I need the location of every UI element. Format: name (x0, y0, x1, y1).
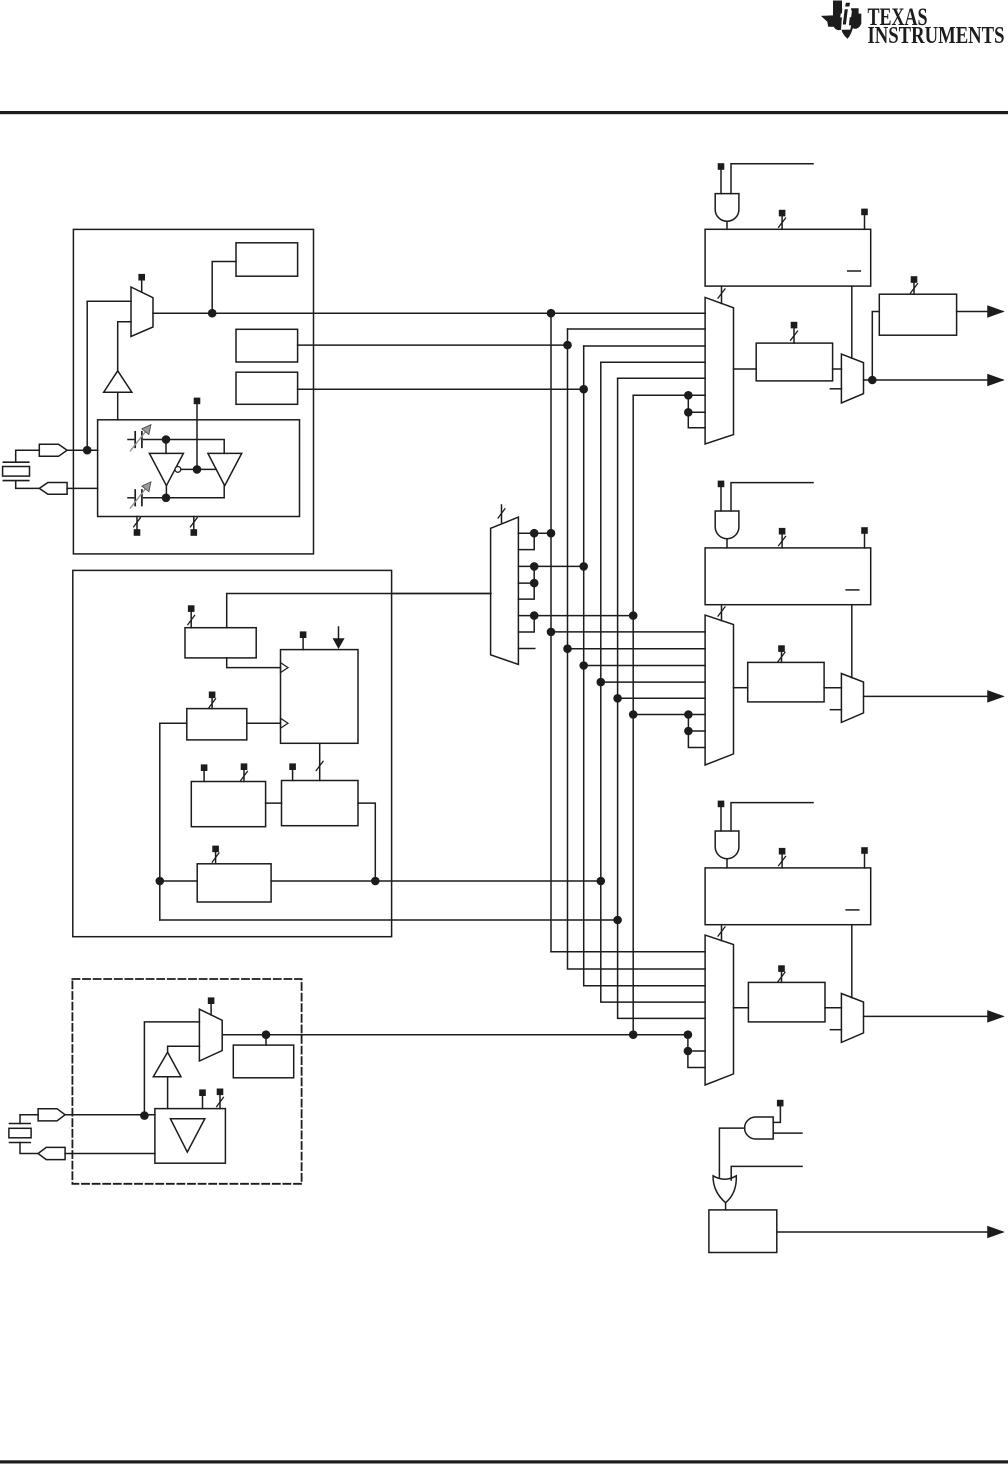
wire eeprom stub (215, 852, 217, 864)
wire decoder to latch (266, 802, 282, 804)
wire Y2 bottom lead (20, 1143, 38, 1154)
control cap-sel1 stub (136, 517, 138, 530)
wire shiftreg data out (319, 743, 321, 780)
wire bus B vertical (568, 329, 706, 969)
mux U10 PLL3 source select (705, 935, 733, 1085)
wire divider1 to outmux1 (833, 368, 842, 370)
node busE src junction (613, 916, 622, 925)
node matrix3 junction (530, 562, 539, 571)
wire vcxo mux input2 (168, 1046, 200, 1052)
box reference-divider (236, 243, 298, 276)
wire bus D vertical (601, 362, 705, 1002)
wire outmux3 const stub (830, 1029, 841, 1031)
wire Y1 bottom lead (16, 481, 40, 489)
node osc-a junction (162, 435, 171, 444)
control osc-ctrl square (194, 398, 201, 405)
node busA ch2 junction (547, 628, 556, 637)
amplifier A1 buffer (104, 371, 132, 392)
wire mux input1 (87, 301, 131, 450)
box P2 divider (879, 294, 956, 335)
wire PLL2-N stub (781, 535, 783, 548)
box bit counter (187, 709, 247, 740)
wire word-clock to logic (227, 594, 491, 628)
node busA top junction (547, 309, 556, 318)
box P4 divider (748, 982, 825, 1022)
mux U5 routing matrix (491, 517, 519, 664)
wire Y4out net (864, 1015, 1003, 1017)
wire vcxo1 stub (202, 1096, 204, 1109)
wire inv1 output (165, 486, 167, 498)
wire bus E vertical (618, 378, 706, 1018)
wire Y1out net (864, 379, 1003, 381)
wire routing select stub (501, 505, 503, 523)
wire matrix stub1 to busA (534, 532, 551, 534)
wire vcxo-in net (65, 1114, 155, 1116)
wire mux select stub (141, 281, 143, 293)
pin PD output arrow (988, 1227, 1003, 1237)
control cmd1 square (201, 764, 208, 771)
control cap-sel1 square (134, 529, 141, 536)
mux U8 PLL2 source select (705, 615, 733, 765)
capacitor CL1 trim (128, 425, 166, 451)
box address register (185, 628, 256, 658)
wire S0 input net (731, 1166, 802, 1180)
block PLL2 (705, 548, 871, 605)
node busD ch2 junction (597, 678, 606, 687)
wire bitcnt to shiftreg (247, 722, 281, 724)
node osc-b junction (162, 494, 171, 503)
box vcxo oscillator cell (155, 1109, 226, 1164)
mux U11 output select 3 (841, 994, 863, 1043)
node vcxo-in junction (140, 1111, 149, 1120)
wire inv1 mid tap (181, 468, 217, 470)
wire P4 stub (781, 972, 783, 983)
wire matrix stub4 (518, 582, 534, 584)
inverter G3 vcxo (170, 1119, 204, 1152)
node osc-mid junction (193, 465, 202, 474)
wire matrix stub5 (518, 566, 534, 599)
box powerdown control (709, 1210, 777, 1253)
control cap-sel2 square (191, 529, 198, 536)
wire Y1 top lead (16, 450, 40, 462)
wire S2 to AND (773, 1106, 780, 1122)
wire busE ch2 tap (618, 697, 706, 699)
wire busB ch2 tap (568, 648, 706, 650)
wire PLL3-M stub (864, 854, 866, 868)
node busF ch2 junction (629, 710, 638, 719)
box data latch (282, 781, 359, 826)
wire M2 output (298, 388, 584, 390)
wire inv1 input (165, 440, 167, 454)
block U1 clock-input oscillator section border (73, 229, 313, 554)
control S0 square (138, 274, 145, 281)
wire mux3 in6 chain (688, 1035, 705, 1068)
wire PLL2-M stub (864, 534, 866, 548)
node input-select junction (208, 309, 217, 318)
control eeprom square (212, 846, 219, 853)
box vcxo cal register (233, 1045, 293, 1078)
wire XOUT net (67, 487, 98, 489)
wire mux1 in6 tap (688, 394, 705, 396)
wire vcxo2 stub (219, 1095, 221, 1109)
gate PLL2 enable AND (715, 511, 739, 539)
block PLL1 (705, 229, 871, 286)
wire divider4 to outmux3 (825, 1007, 841, 1009)
node busC src junction (579, 385, 588, 394)
mux U6 PLL1 source select (705, 297, 733, 444)
box divider M1 (236, 329, 298, 362)
gate S-config OR (713, 1176, 736, 1203)
wire PLL1 bypass (851, 286, 853, 358)
node matrix1 junction (530, 529, 539, 538)
node busC ch2 junction (579, 661, 588, 670)
wire PLL1-en stub (720, 170, 722, 194)
wire vcxo mux input1 (144, 1022, 199, 1116)
wire osc-ctrl stub (196, 404, 198, 469)
wire to divider2 (872, 312, 879, 381)
wire divider3 to outmux2 (824, 687, 841, 689)
control latch square (289, 763, 296, 770)
node sdata-left junction (156, 877, 165, 886)
wire PLL2-en stub (720, 487, 722, 511)
wire mux3 in7 tap (688, 1050, 705, 1052)
wire busB top corner (568, 328, 706, 330)
wire PLL3-N stub (781, 855, 783, 868)
mux U9 output select 2 (841, 674, 863, 723)
node busF tap junction (629, 611, 638, 620)
node mux3-in7 junction (684, 1047, 693, 1056)
wire PLL3 enable net (731, 803, 813, 831)
node busE ch2 junction (613, 694, 622, 703)
inverter G1 (149, 453, 183, 485)
inverter G2 (208, 453, 242, 485)
wire latch stub (292, 770, 294, 781)
wire OR to powerdown box (725, 1203, 727, 1210)
wire AND1 to PLL1 (726, 221, 728, 229)
wire matrix stub8 (518, 648, 534, 650)
footer rule (0, 1460, 1008, 1463)
wire PLL2 enable net (731, 483, 813, 511)
node mux1-in7 junction (684, 408, 693, 417)
wire matrix stub1 (518, 532, 534, 534)
pin VCXO-OUT buffer (38, 1147, 65, 1159)
wire bus A vertical (550, 313, 552, 952)
wire AND to OR (719, 1128, 744, 1177)
gate PLL1 enable AND (715, 194, 739, 222)
wire busD ch2 tap (601, 681, 705, 683)
wire mux1 to divider1 (734, 368, 757, 370)
wire outmux1 const stub (830, 388, 841, 390)
wire P2 stub (913, 283, 915, 294)
control bitcnt square (209, 692, 216, 699)
node xtal-in junction (83, 446, 92, 455)
wire data-in arrow (333, 627, 345, 649)
wire PLL1-N stub (781, 216, 783, 229)
control PLL1-en square (718, 163, 725, 170)
wire matrix stub2 (518, 533, 534, 549)
control S2 square (777, 1100, 784, 1107)
wire vcxo cal stub (265, 1035, 267, 1045)
pin XIN buffer (39, 444, 67, 456)
label PLL1 minus (848, 270, 861, 272)
wire shiftreg ctrl stub (302, 638, 304, 650)
wire busE top corner (618, 377, 706, 379)
node sdata-latch junction (371, 877, 380, 886)
control PLL2-N square (779, 528, 786, 535)
node matrix4 junction (530, 579, 539, 588)
svg-text:INSTRUMENTS: INSTRUMENTS (868, 22, 1005, 49)
wire PLL3 to mux3 (721, 925, 723, 941)
wire PD output net (777, 1231, 1003, 1233)
wire busC ch2 tap (584, 665, 705, 667)
wire amp2 input (167, 1077, 169, 1109)
pin Y2 output arrow (988, 306, 1003, 316)
wire mux1 in6 chain (688, 395, 705, 428)
control PLL3-N square (779, 848, 786, 855)
wire sdata left segment (160, 880, 197, 882)
wire sdata right segment (271, 880, 601, 882)
wire AND3 to PLL3 (726, 859, 728, 868)
wire vcxo-out-pin net (65, 1153, 155, 1155)
wire clk-out net (153, 312, 705, 314)
wire ref-divider input (212, 262, 236, 314)
wire busA ch2 tap (551, 631, 705, 633)
node mux2-in7 junction (684, 727, 693, 736)
control P1 square (791, 322, 798, 329)
wire bus F vertical (632, 395, 634, 1034)
wire busF top corner (633, 394, 688, 396)
wire PLL1-M stub (864, 215, 866, 229)
wire Y3out net (864, 695, 1003, 697)
flip-flop U4 shift register (281, 650, 359, 744)
node vcxo-out junction (262, 1030, 271, 1039)
wire mux3 to divider4 (734, 1007, 749, 1009)
pin Y3 output arrow (988, 691, 1003, 701)
control shiftreg square (300, 631, 307, 638)
control PLL3-M square (861, 847, 868, 854)
wire mux2 in7 tap (688, 730, 705, 732)
control cmd2 square (241, 763, 248, 770)
node busB src junction (563, 341, 572, 350)
wire cmd2 stub (243, 770, 245, 782)
wire mux2 to divider3 (734, 687, 748, 689)
box crystal oscillator cell (98, 420, 300, 517)
pin VCXO-IN buffer (38, 1109, 65, 1121)
wire Y2 top lead (20, 1115, 38, 1124)
node Y1out junction (868, 376, 877, 385)
wire matrix stub3 (518, 565, 534, 567)
node busF bottom junction (629, 1030, 638, 1039)
wire matrix stub6 to busF (534, 615, 633, 617)
mux U2 input select (131, 287, 153, 337)
wire bitcnt feedback (160, 723, 187, 920)
mux U12 vcxo select (199, 1009, 222, 1061)
control addr square (188, 605, 195, 612)
wire matrix stub3 to busC (534, 565, 584, 567)
wire vcxo-sel stub (210, 1004, 212, 1015)
wire S1 input net (773, 1132, 802, 1134)
capacitor CL2 trim (128, 482, 166, 508)
node busB ch2 junction (563, 644, 572, 653)
wire amp input (117, 392, 119, 420)
wire busF ch2 tap (633, 714, 688, 716)
wire PLL1 enable net (731, 164, 813, 194)
control PLL2-M square (861, 527, 868, 534)
node mux1-in6 junction (684, 391, 693, 400)
gate S-config AND (745, 1117, 774, 1139)
node mux3-in6 junction (684, 1030, 693, 1039)
label PLL3 minus (846, 909, 859, 911)
wire vcxo output net (222, 1034, 688, 1036)
wire bus C vertical (584, 346, 705, 986)
wire sclock net (160, 919, 618, 921)
label PLL2 minus (846, 589, 859, 591)
wire osc bottom feedback (166, 486, 224, 498)
control PLL2-en square (718, 481, 725, 488)
wire XIN net (67, 449, 98, 451)
mux U7 output select 1 (841, 354, 863, 403)
wire matrix stub7 (518, 616, 534, 632)
control cap-sel2 stub (193, 517, 195, 530)
control P3 square (778, 645, 785, 652)
wire mux2 in6 chain (688, 715, 705, 748)
wire matrix stub6 (518, 615, 534, 617)
wire latch output (358, 803, 375, 881)
wire PLL3 bypass (851, 925, 853, 998)
control vcxo2 square (217, 1089, 224, 1096)
gate PLL3 enable AND (715, 831, 739, 859)
wire routing input (392, 593, 491, 595)
wire addr to shiftreg clk (227, 658, 281, 668)
logo Texas Instruments bug (821, 1, 861, 39)
box divider M2 (236, 372, 298, 404)
control PLL1-M square (861, 209, 868, 216)
wire osc top feedback (166, 440, 224, 454)
node busA tap1 junction (547, 529, 556, 538)
wire busA ch3 tap (551, 951, 705, 953)
control P4 square (778, 965, 785, 972)
wire mux input2 (118, 322, 131, 371)
box P1 divider (756, 343, 832, 381)
crystal Y2 (9, 1124, 31, 1143)
node mux2-in6 junction (684, 710, 693, 719)
pin Y4 output arrow (988, 1011, 1003, 1021)
node busD src junction (597, 877, 606, 886)
header rule (0, 111, 1008, 114)
wire PLL3-en stub (720, 807, 722, 831)
box eeprom control (197, 864, 271, 902)
wire busA ch1 tap (551, 312, 705, 314)
node matrix6 junction (530, 611, 539, 620)
wire outmux2 const stub (830, 709, 841, 711)
control PLL3-en square (718, 801, 725, 808)
pin XOUT buffer (39, 483, 67, 495)
wire P1 stub (793, 328, 795, 343)
wire M1 output (298, 344, 568, 346)
box P3 divider (748, 662, 824, 702)
wire AND2 to PLL2 (726, 539, 728, 548)
amplifier A2 buffer (153, 1052, 181, 1077)
box command decoder (191, 782, 265, 827)
wire busD top corner (601, 361, 705, 363)
wire Y2out net (957, 311, 1003, 313)
node busC tap junction (579, 562, 588, 571)
block U3 serial-interface section border (73, 570, 392, 936)
wire mux1 in7 tap (688, 411, 705, 413)
block PLL3 (705, 868, 871, 925)
wire PLL2 to mux2 (721, 605, 723, 621)
control P2 square (911, 276, 918, 283)
control PLL1-N square (779, 210, 786, 217)
wire P3 stub (781, 652, 783, 663)
control vcxo1 square (199, 1089, 206, 1096)
wire addr ctrl stub (190, 612, 192, 628)
pin Y1 output arrow (988, 375, 1003, 385)
block VCXO section dashed border (72, 979, 301, 1184)
wire cmd1 stub (203, 771, 205, 782)
control vcxo-sel square (208, 997, 215, 1004)
wire PLL2 bypass (851, 605, 853, 678)
crystal Y1 (3, 462, 30, 480)
wire PLL1 to mux1 (721, 286, 723, 303)
wire mux2 in6 tap (688, 714, 705, 716)
wire bitcnt ctrl stub (211, 698, 213, 709)
wire busC top corner (584, 345, 705, 347)
